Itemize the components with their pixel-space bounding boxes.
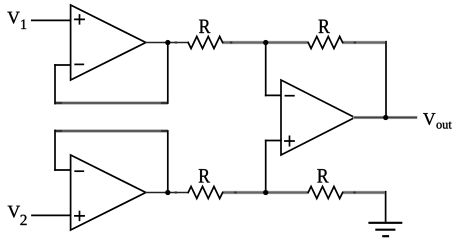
U3 non-inverting input plus mark [285,136,294,145]
node C junction dot [165,190,170,195]
node Vout junction dot [383,115,388,120]
ground bar 2 (middle) [376,229,394,231]
node D junction dot [263,190,268,195]
wire joint mark right of R3 [234,191,237,193]
wire U1 feedback: left vertical [54,65,56,104]
label R (R3) [199,169,210,182]
wire joint mark left of R3 [175,191,178,193]
wire U2 output [146,192,188,194]
label Vout (V) [423,113,435,125]
wire joint mark right of R1 [230,41,232,43]
wire joint mark left of R1 [175,41,178,43]
wire corner stub at U1 feedback left corner [55,102,62,104]
node V1 input wire [32,19,71,21]
label R (R4) [317,169,328,182]
wire node A to node B (soft) [223,41,309,45]
U2 inverting input minus mark [75,170,83,172]
op-amp U2 (bottom-left buffer) [71,155,146,230]
wire node B down to U3 inverting input [265,43,267,96]
wire vertical down to ground [385,192,387,223]
label R (R2) [319,20,330,33]
wire corner stub at U2 feedback right corner [161,130,168,132]
resistor R1 (top-left) [188,37,222,49]
label V2 (V) [8,206,20,218]
wire joint mark right of R4 [353,191,356,193]
label V1 subscript 1 [21,20,26,29]
wire U2 feedback: stub from inverting input [55,169,70,171]
ground bar 3 (bottom, shortest) [383,235,388,237]
op-amp U3 triangle body [281,80,355,155]
wire U1 feedback: right vertical up to node A [167,43,169,104]
wire U2 feedback: right vertical down to node C [167,131,169,193]
wire U1 feedback: stub from inverting input [55,64,70,66]
wire U2 feedback: left vertical [54,130,56,170]
wire node D up to U3 non-inverting input [266,140,281,142]
wire U3 output to Vout [355,116,416,119]
resistor R4 (bottom-right) [308,187,342,199]
wire corner stub at U2 feedback left corner [55,130,62,132]
ground symbol [370,223,402,236]
wire U1 output [146,42,188,44]
wire node C to node D (soft) [223,191,309,195]
node V2 input wire [32,214,71,216]
wire right vertical down to output node [385,42,387,118]
U1 non-inverting input plus mark [75,15,84,24]
op-amp U2 triangle body [71,155,146,230]
op-amp U1 (top-left buffer) [71,5,146,80]
resistor R3 (bottom-left) [188,187,222,199]
U3 inverting input minus mark [285,95,294,97]
node B junction dot [263,40,268,45]
wire U2 feedback top horizontal (soft) [56,129,168,133]
label V2 subscript 2 [20,215,26,225]
label Vout subscript out [436,123,441,129]
wire R4 to ground corner (soft) [343,191,385,195]
resistor R2 (top-right, feedback) [308,37,342,49]
U2 non-inverting input plus mark [75,212,84,221]
wire joint mark right of R2 [354,41,357,43]
node A junction dot [165,40,170,45]
op-amp U3 (difference stage) [281,80,355,155]
ground bar 1 (top, widest) [370,222,402,224]
wire U1 feedback bottom horizontal (soft) [56,101,168,105]
wire R2 to top-right corner (soft) [343,41,385,45]
op-amp U1 triangle body [71,5,146,80]
label R (R1) [199,20,210,33]
label V1 (V) [7,12,19,24]
wire corner stub at U1 feedback right corner [161,102,168,104]
U1 inverting input minus mark [75,63,83,65]
